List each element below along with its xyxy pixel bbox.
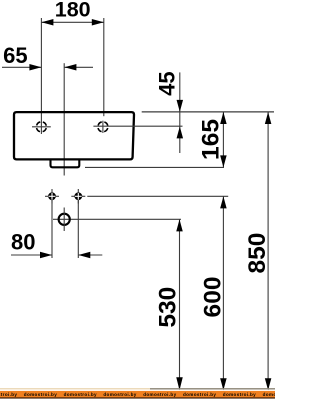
dimension 65 tail line right part [64, 66, 93, 68]
dimension 600 arrow down [220, 378, 227, 390]
svg-text:850: 850 [244, 233, 271, 274]
dimension 180 line [41, 21, 103, 23]
top edge reference line [142, 111, 274, 113]
svg-text:180: 180 [55, 0, 91, 21]
dimension 530 arrow up [176, 219, 183, 231]
watermark banner bottom border [0, 397, 275, 398]
dimension 600 arrow up [220, 196, 227, 208]
dimension 45 arrow down [177, 100, 184, 112]
floor line right part [150, 388, 275, 390]
dimension 530 line [179, 219, 181, 389]
svg-text:530: 530 [154, 287, 181, 328]
dimension 850 line [267, 112, 269, 389]
wall fixing hole left [45, 189, 59, 204]
dimension 165 line [222, 112, 224, 167]
dimension 80 extension line right [77, 201, 79, 259]
basin outline [14, 112, 134, 159]
dimension 80 line left part [11, 254, 52, 256]
watermark banner background [0, 391, 275, 398]
svg-text:165: 165 [197, 119, 224, 160]
dimension 45 arrow up [177, 126, 184, 138]
dimension 80 extension line left [51, 201, 53, 259]
dimension 530 arrow down [176, 377, 183, 390]
svg-text:600: 600 [199, 277, 226, 318]
dimension 80 arrow right-pointing [40, 252, 52, 259]
tap hole left (dashed circle) [36, 122, 46, 132]
tap hole left cross horizontal [32, 126, 51, 128]
centre line of basin drain [63, 63, 65, 175]
dimension 65 line left part [2, 66, 41, 68]
dimension 180 arrow right [92, 19, 104, 26]
dimension 45 line [179, 72, 181, 153]
dimension 180 extension line right [103, 18, 105, 116]
dimension 80 tail line right part [78, 254, 102, 256]
svg-text:45: 45 [155, 71, 180, 95]
tap hole right centre line to dimension 45 [93, 125, 182, 127]
reference line for 165 [85, 166, 224, 168]
dimension 65 arrow right-pointing [29, 64, 41, 71]
drain pipe cross vertical [63, 208, 65, 232]
dimension 180 extension line left [40, 18, 42, 134]
dimension 65 arrow left-pointing [64, 64, 76, 71]
drain pipe circle [59, 214, 70, 225]
floor line faint left part [0, 388, 150, 390]
dimension 165 arrow up [220, 112, 227, 124]
dimension 850 arrow up [265, 112, 272, 124]
dimension 600 line [222, 196, 224, 389]
dimension 180 arrow left [41, 19, 53, 26]
tap hole right cross vertical [102, 121, 104, 133]
dimension 80 arrow left-pointing [78, 252, 90, 259]
wall fixing holes reference line [87, 195, 228, 197]
svg-text:domostroi.by domostroi.by: domostroi.by domostroi.by domostroi.by d… [0, 392, 275, 397]
dimension 850 arrow down [265, 378, 272, 390]
drain pipe reference line [53, 218, 181, 220]
tap hole right (dashed circle) [98, 122, 108, 132]
svg-text:65: 65 [3, 43, 27, 68]
svg-text:80: 80 [11, 230, 35, 255]
wall fixing hole right [71, 189, 85, 204]
drain outlet below basin [51, 160, 80, 167]
dimension 165 arrow down [220, 155, 227, 167]
